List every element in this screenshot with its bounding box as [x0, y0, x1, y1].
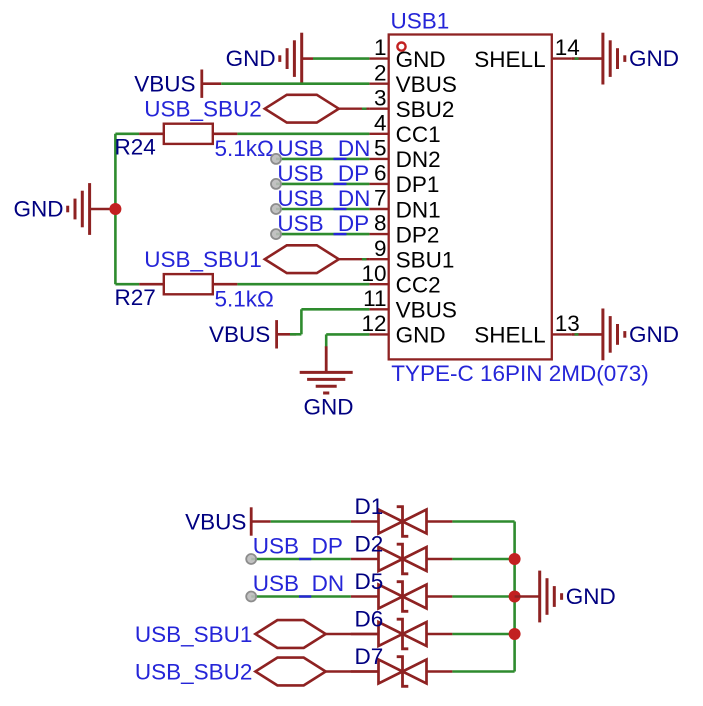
svg-text:D6: D6	[355, 606, 384, 631]
svg-text:11: 11	[363, 286, 386, 311]
wire trunk to R24	[115, 133, 139, 136]
TVS diode D1	[379, 507, 427, 537]
wire USB_SBU2 to D7	[326, 670, 379, 672]
pin 9 (SBU1)	[369, 236, 454, 273]
svg-text:4: 4	[374, 110, 387, 135]
ground flag GND (bottom right)	[540, 571, 616, 623]
pin 4 (CC1)	[369, 110, 440, 147]
connector USB1 body	[389, 35, 552, 360]
svg-text:USB_SBU1: USB_SBU1	[144, 247, 262, 272]
svg-text:GND: GND	[304, 394, 354, 419]
svg-text:VBUS: VBUS	[209, 322, 270, 347]
wire D1 cathode to trunk	[427, 520, 453, 523]
wire D5 cathode to trunk	[427, 595, 453, 598]
svg-text:R27: R27	[115, 285, 156, 310]
svg-text:CC2: CC2	[396, 273, 441, 298]
wire pin to GND flag (right)	[572, 57, 603, 60]
svg-text:GND: GND	[396, 323, 446, 348]
pin 1 orientation marker	[397, 43, 405, 51]
svg-text:D5: D5	[355, 569, 384, 594]
svg-text:GND: GND	[629, 322, 679, 347]
svg-text:TYPE-C 16PIN 2MD(073): TYPE-C 16PIN 2MD(073)	[391, 361, 649, 386]
svg-text:USB_SBU2: USB_SBU2	[144, 97, 262, 122]
svg-text:14: 14	[555, 35, 580, 60]
svg-text:D1: D1	[355, 494, 384, 519]
svg-text:DP: DP	[338, 161, 369, 186]
wire R24 to pin 4	[237, 133, 369, 136]
pin 3 (SBU2)	[369, 85, 454, 122]
wire trunk to GND flag (bottom right)	[515, 595, 540, 598]
wire USB_SBU1 to D6	[326, 633, 379, 635]
svg-text:CC1: CC1	[396, 122, 441, 147]
wire D7 cathode to trunk	[427, 670, 453, 673]
svg-text:12: 12	[361, 311, 386, 336]
ground flag GND (pin 1)	[226, 33, 302, 85]
resistor R27	[139, 274, 237, 294]
TVS diode D5	[379, 582, 427, 612]
svg-text:USB: USB	[253, 571, 299, 596]
wire D5 anode lead	[351, 595, 379, 598]
TVS diode D6	[379, 619, 427, 649]
svg-text:DN1: DN1	[396, 197, 441, 222]
svg-text:USB: USB	[253, 534, 299, 559]
wire GND flag to trunk	[90, 208, 116, 211]
svg-text:USB_SBU2: USB_SBU2	[135, 659, 253, 684]
net label USB_DP with stub wire (pin 6)	[271, 161, 369, 189]
wire R27 to pin 10	[237, 283, 369, 286]
svg-text:SHELL: SHELL	[474, 47, 545, 72]
wire VBUS up to pin 11	[290, 333, 301, 336]
net port USB_SBU1 (D6)	[135, 620, 326, 648]
wire right vertical trunk (diode commons)	[513, 522, 516, 672]
svg-text:DN: DN	[312, 571, 345, 596]
wire VBUS to pin 2	[221, 82, 369, 85]
wire USB_SBU1 to pin 9	[339, 258, 370, 260]
svg-text:9: 9	[374, 236, 387, 261]
svg-text:10: 10	[361, 261, 386, 286]
pin 5 (DN2)	[369, 136, 440, 173]
svg-text:VBUS: VBUS	[185, 509, 246, 534]
junction D6/trunk	[509, 628, 521, 640]
net label USB_DP with stub wire (D2)	[246, 534, 351, 565]
svg-text:SBU1: SBU1	[396, 248, 455, 273]
svg-text:VBUS: VBUS	[396, 298, 457, 323]
power flag VBUS (pin 2)	[134, 70, 221, 98]
pin 12 (GND)	[361, 311, 445, 348]
svg-text:DP1: DP1	[396, 172, 440, 197]
net label USB_DN with stub wire (pin 7)	[271, 186, 370, 214]
svg-text:DP: DP	[338, 211, 369, 236]
TVS diode D7	[379, 657, 427, 687]
svg-text:VBUS: VBUS	[396, 72, 457, 97]
svg-text:5.1kΩ: 5.1kΩ	[215, 286, 274, 311]
power flag VBUS (pin 11)	[209, 320, 296, 348]
svg-text:13: 13	[555, 311, 580, 336]
svg-text:GND: GND	[14, 196, 64, 221]
svg-text:SBU2: SBU2	[396, 97, 455, 122]
svg-text:8: 8	[374, 211, 387, 236]
pin 6 (DP1)	[369, 161, 439, 198]
svg-text:DP: DP	[312, 534, 343, 559]
svg-text:GND: GND	[396, 47, 446, 72]
svg-text:6: 6	[374, 161, 387, 186]
pin 7 (DN1)	[369, 186, 440, 223]
pin 1 (GND)	[369, 35, 445, 72]
svg-text:7: 7	[374, 186, 387, 211]
svg-text:D7: D7	[355, 644, 384, 669]
wire D2 anode lead	[351, 558, 379, 561]
pin 11 (VBUS)	[363, 286, 457, 323]
ground flag GND (right)	[603, 309, 679, 361]
wire VBUS to D1	[271, 520, 351, 523]
svg-text:VBUS: VBUS	[134, 72, 195, 97]
wire pin 12 to ground	[326, 333, 369, 336]
net label USB_DP with stub wire (pin 8)	[271, 211, 369, 239]
net label USB_DN with stub wire (D5)	[246, 571, 351, 602]
svg-text:DN: DN	[338, 186, 371, 211]
svg-text:1: 1	[374, 35, 387, 60]
svg-text:GND: GND	[226, 46, 276, 71]
junction D2/trunk	[509, 553, 521, 565]
junction D5/trunk	[509, 591, 521, 603]
svg-text:GND: GND	[629, 46, 679, 71]
pin 2 (VBUS)	[369, 60, 456, 97]
wire USB_SBU2 to pin 3	[339, 107, 370, 109]
pin 13 (SHELL)	[474, 311, 579, 348]
net port USB_SBU2 (pin 3)	[144, 95, 339, 123]
svg-text:DN2: DN2	[396, 147, 441, 172]
svg-text:D2: D2	[355, 531, 384, 556]
ground flag GND (left)	[14, 183, 90, 235]
ground symbol GND (earth bars, pin 12)	[300, 346, 354, 419]
wire D2 cathode to trunk	[427, 558, 453, 561]
svg-text:USB: USB	[277, 186, 323, 211]
svg-text:DP2: DP2	[396, 222, 440, 247]
net label USB_DN with stub wire (pin 5)	[271, 136, 370, 164]
pin 14 (SHELL)	[474, 35, 579, 72]
wire left vertical trunk	[114, 134, 117, 284]
svg-text:GND: GND	[566, 584, 616, 609]
net port USB_SBU1 (pin 9)	[144, 245, 339, 273]
svg-text:DN: DN	[338, 136, 371, 161]
svg-text:5.1kΩ: 5.1kΩ	[215, 136, 274, 161]
wire D7 anode lead	[351, 670, 379, 673]
svg-text:R24: R24	[115, 134, 156, 159]
svg-text:USB: USB	[277, 136, 323, 161]
pin 8 (DP2)	[369, 211, 439, 248]
svg-text:5: 5	[374, 136, 387, 161]
pin 10 (CC2)	[361, 261, 440, 298]
wire trunk to R27	[115, 283, 139, 286]
ground flag GND (right)	[603, 33, 679, 85]
wire D6 cathode to trunk	[427, 633, 453, 636]
svg-text:2: 2	[374, 60, 387, 85]
junction on trunk	[109, 203, 121, 215]
svg-text:USB_SBU1: USB_SBU1	[135, 622, 253, 647]
TVS diode D2	[379, 544, 427, 574]
wire D6 anode lead	[351, 633, 379, 636]
resistor R24	[139, 124, 237, 144]
svg-text:USB: USB	[277, 161, 323, 186]
net port USB_SBU2 (D7)	[135, 658, 326, 686]
wire D1 anode lead	[351, 520, 379, 523]
wire pin to GND flag (right)	[572, 333, 603, 336]
svg-text:3: 3	[374, 85, 387, 110]
svg-text:SHELL: SHELL	[474, 323, 545, 348]
power flag VBUS (D1)	[185, 507, 271, 535]
svg-text:USB: USB	[277, 211, 323, 236]
wire pin1 to GND flag	[302, 57, 313, 60]
svg-text:USB1: USB1	[391, 9, 450, 34]
